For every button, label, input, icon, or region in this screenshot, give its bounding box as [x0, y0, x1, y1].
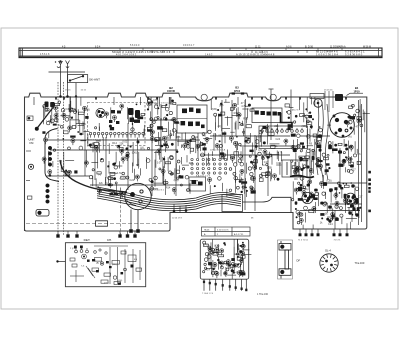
pad: [119, 192, 122, 195]
wire harness exit: [243, 197, 292, 212]
pad: [47, 121, 50, 124]
solder pads bottom right edge: [299, 229, 348, 236]
pad: [187, 189, 190, 192]
svg-text:TKa 160: TKa 160: [355, 261, 365, 265]
svg-text:0.5: 0.5: [258, 149, 262, 152]
wire: [132, 142, 134, 166]
wire: [127, 115, 129, 124]
resistor: [72, 126, 76, 129]
pad: [338, 182, 341, 185]
solder dot: [248, 137, 250, 139]
transistor: [237, 113, 241, 120]
transistor: [105, 112, 109, 119]
pad: [185, 175, 189, 179]
IF module T3 parts: [255, 111, 282, 116]
transistor Q6: [345, 193, 356, 204]
solder dot: [71, 117, 73, 119]
transistor Q5: [302, 192, 313, 203]
solder dot: [239, 122, 241, 124]
legs of large can: [130, 210, 140, 233]
capacitor: [250, 150, 254, 152]
pad: [61, 109, 64, 112]
svg-text:(C8C) 4 1 6 2 A: (C8C) 4 1 6 2 A: [210, 149, 226, 152]
solder dot: [112, 163, 115, 166]
switch SK-ANT box: [68, 75, 88, 96]
wire: [269, 152, 271, 159]
resistor: [190, 148, 193, 151]
pad: [180, 184, 182, 186]
wire: [97, 111, 99, 117]
transistor Q1: [96, 108, 105, 117]
pad: [79, 146, 83, 150]
wire: [108, 161, 110, 174]
solder dot: [329, 190, 331, 192]
pad: [153, 121, 156, 124]
capacitor: [316, 165, 320, 168]
pad: [219, 144, 222, 147]
wire: [301, 143, 303, 150]
pad: [350, 146, 354, 150]
wire: [169, 97, 171, 104]
antenna EXT-ANT terminals: [49, 61, 86, 97]
transistor: [71, 139, 75, 146]
wire: [91, 161, 98, 163]
wire: [131, 163, 133, 173]
solder dot: [157, 107, 159, 109]
wire: [189, 183, 191, 194]
svg-text:A 19 15 12 8 68 21 034964: A 19 15 12 8 68 21 034964 4 8: [236, 52, 275, 56]
wire: [236, 108, 238, 117]
svg-text:SK-ANT: SK-ANT: [89, 78, 100, 82]
wire: [255, 136, 257, 150]
wire: [115, 152, 117, 163]
wire: [341, 189, 343, 199]
svg-text:C24: C24: [129, 179, 134, 182]
transistor: [319, 164, 323, 171]
resistor: [357, 117, 361, 120]
wire: [236, 144, 238, 158]
pad: [126, 152, 129, 155]
svg-text:R14: R14: [186, 189, 191, 192]
solder dot: [126, 147, 129, 150]
capacitor: [74, 170, 77, 173]
pad: [239, 143, 242, 146]
svg-text:C17: C17: [205, 244, 210, 247]
wire: [138, 152, 140, 167]
transistor: [68, 126, 72, 132]
pad: [108, 176, 112, 180]
transistor: [157, 149, 161, 156]
wire: [246, 137, 248, 144]
wire: [165, 141, 167, 152]
svg-text:(CB): (CB): [212, 108, 217, 111]
wire: [353, 127, 355, 135]
transistor: [284, 139, 288, 146]
wire: [347, 206, 351, 208]
wire: [235, 121, 237, 136]
pad: [242, 186, 244, 188]
resistor: [234, 152, 239, 155]
transformer T4 outline: [282, 160, 307, 177]
wire: [136, 138, 138, 151]
pad: [245, 138, 248, 141]
wire: [177, 136, 179, 146]
transistor: [250, 187, 254, 194]
svg-text:(D6): (D6): [118, 280, 123, 282]
pad: [349, 120, 353, 124]
solder dot: [302, 167, 304, 169]
lead into detector board: [59, 260, 66, 262]
resistor: [109, 177, 113, 180]
wire: [364, 112, 366, 133]
wire: [314, 202, 316, 213]
svg-text:TA 26: TA 26: [204, 228, 210, 231]
capacitor row FM section: [109, 110, 121, 124]
solder dot: [345, 144, 348, 147]
pad: [150, 187, 154, 191]
svg-text:C17: C17: [120, 178, 125, 181]
transistor: [98, 189, 102, 196]
wire: [332, 209, 334, 220]
svg-text:0.5: 0.5: [157, 162, 161, 165]
wire: [303, 102, 305, 122]
capacitor: [251, 190, 256, 193]
pad: [65, 118, 69, 122]
pad: [233, 163, 237, 167]
pad: [305, 115, 308, 118]
wire: [150, 97, 152, 106]
svg-text:4 (A1) 6: 4 (A1) 6: [46, 119, 55, 122]
pad: [307, 135, 310, 138]
wire: [98, 123, 100, 131]
wire: [181, 157, 183, 164]
wire: [306, 129, 308, 144]
solder dot: [263, 141, 266, 144]
wire: [108, 179, 110, 183]
wire: [76, 123, 85, 125]
transistor: [299, 218, 303, 225]
svg-text:(C8): (C8): [65, 108, 70, 111]
svg-text:15 16: 15 16: [65, 90, 71, 92]
wire: [175, 163, 177, 177]
capacitor: [70, 136, 75, 138]
pad: [147, 147, 149, 149]
pad: [154, 117, 158, 121]
wire: [266, 124, 268, 145]
pad: [331, 213, 335, 217]
pad: [186, 145, 190, 149]
transistor: [357, 119, 361, 126]
pad: [172, 129, 176, 133]
pad: [89, 175, 92, 178]
pad: [250, 172, 253, 175]
pad: [61, 126, 64, 129]
pad: [122, 172, 125, 175]
dial drum DL-4: [320, 254, 338, 272]
pad: [208, 130, 211, 133]
transistor: [120, 104, 124, 111]
wire: [325, 192, 327, 199]
pad: [316, 163, 318, 165]
wire angular bottom left: [60, 160, 127, 192]
transistor: [295, 168, 299, 175]
pad: [166, 145, 169, 148]
capacitor: [110, 127, 114, 130]
transistor: [309, 192, 313, 199]
solder dot: [255, 155, 257, 157]
wire: [177, 140, 188, 142]
resistor: [259, 178, 263, 181]
wire vertical channel right: [316, 100, 361, 225]
svg-text:C24: C24: [81, 123, 86, 126]
IF transformer can large: [125, 183, 151, 209]
capacitor: [340, 187, 343, 189]
wire: [239, 174, 241, 183]
amplifier board components: [203, 239, 252, 279]
svg-text:10 16 17 8: 10 16 17 8: [172, 218, 183, 220]
pad: [249, 155, 251, 157]
wire: [49, 115, 51, 123]
solder dot: [113, 177, 116, 180]
solder dot: [151, 101, 153, 103]
wire: [311, 125, 313, 129]
pad: [126, 176, 129, 179]
resistor: [305, 156, 309, 159]
resistor: [190, 139, 196, 142]
svg-text:0.01: 0.01: [158, 118, 163, 121]
wire: [157, 132, 159, 145]
wire loop around pad column: [45, 129, 59, 182]
wire: [298, 99, 300, 110]
svg-text:A 0 6: A 0 6: [286, 46, 292, 49]
capacitor: [262, 126, 266, 129]
transistor: [186, 140, 190, 147]
wire: [354, 209, 356, 215]
wire: [314, 97, 316, 107]
solder dot: [130, 145, 132, 147]
svg-text:(CB): (CB): [302, 125, 307, 128]
wire: [317, 158, 319, 165]
wire: [242, 147, 244, 161]
capacitor: [314, 197, 318, 200]
capacitor: [334, 187, 337, 190]
wire: [195, 137, 197, 153]
wire: [277, 152, 279, 161]
resistor: [246, 125, 251, 128]
resistor: [268, 132, 274, 135]
transistor: [342, 159, 346, 166]
solder dot: [326, 218, 329, 221]
pad: [343, 152, 345, 154]
wire: [331, 213, 333, 221]
svg-text:6 5 4: 6 5 4: [95, 46, 101, 49]
wire: [119, 188, 121, 200]
capacitor pair top-left: [45, 102, 55, 108]
transistor: [316, 158, 320, 165]
wire: [279, 162, 281, 174]
wire antenna leads: [58, 82, 64, 236]
svg-text:C17: C17: [358, 195, 363, 198]
wire: [119, 161, 121, 168]
pad: [258, 152, 261, 155]
wire: [139, 168, 141, 175]
pad columns left side: [46, 146, 52, 203]
solder dot: [63, 138, 65, 140]
wire: [350, 157, 352, 164]
pad: [170, 155, 174, 159]
wire: [173, 119, 175, 136]
wire: [143, 129, 145, 137]
resistor: [299, 156, 305, 158]
wire: [302, 114, 312, 116]
solder dot: [295, 208, 297, 210]
transistor: [229, 136, 233, 143]
solder dot: [296, 216, 298, 218]
pad: [335, 205, 338, 208]
resistor: [119, 147, 123, 150]
transistor: [273, 174, 277, 181]
wire: [318, 192, 320, 206]
pad: [54, 118, 58, 122]
solder dot: [220, 103, 222, 105]
transistor: [233, 141, 237, 148]
resistor: [271, 145, 275, 148]
pad: [218, 177, 222, 181]
screw hole in top edge notch 2: [270, 94, 276, 100]
pad: [163, 181, 166, 184]
wire: [341, 217, 343, 224]
svg-text:4 5 6 1 8: 4 5 6 1 8: [40, 53, 50, 56]
capacitor: [317, 135, 322, 137]
transistor: [345, 198, 349, 205]
solder dot: [305, 108, 307, 110]
svg-text:11 11: 11 11: [255, 46, 261, 49]
svg-text:1 4 6 2: 1 4 6 2: [205, 53, 213, 56]
capacitor: [53, 124, 57, 126]
wire diagonal to antenna: [37, 106, 55, 129]
wire: [79, 120, 81, 135]
pad: [45, 108, 48, 111]
pad: [68, 147, 71, 150]
wire: [314, 139, 316, 156]
pad: [327, 154, 329, 156]
pads at switch feet: [59, 95, 77, 98]
wire: [182, 164, 189, 166]
resistor: [266, 172, 270, 175]
wire: [203, 138, 212, 140]
capacitor: [157, 126, 163, 129]
wire: [322, 175, 324, 182]
solder dot: [319, 126, 321, 128]
wire: [308, 181, 310, 191]
wire: [61, 171, 72, 173]
transistor: [253, 165, 257, 172]
wire: [131, 114, 133, 125]
wire: [339, 150, 341, 162]
wire: [322, 175, 324, 189]
wire: [95, 178, 97, 189]
wire right edge feeds: [300, 183, 367, 211]
solder dot: [217, 109, 219, 111]
wire: [348, 207, 350, 213]
wire: [241, 178, 243, 185]
solder dot: [288, 117, 290, 119]
pad: [114, 166, 118, 170]
FM tuner module dashed outline: [88, 103, 146, 146]
capacitor: [320, 213, 324, 216]
IF module T2 parts: [181, 108, 205, 129]
transistor: [161, 169, 165, 176]
pad: [147, 99, 151, 103]
pad: [237, 186, 240, 189]
transistor: [231, 156, 235, 163]
capacitor: [179, 175, 183, 178]
pad: [240, 162, 244, 166]
solder dot: [107, 165, 109, 167]
pad: [297, 134, 301, 138]
svg-text:CH.: CH.: [107, 238, 112, 242]
solder dot: [245, 187, 247, 189]
transistor: [183, 144, 187, 151]
wire: [181, 133, 183, 140]
wire: [237, 141, 239, 150]
svg-text:M 56 M: M 56 M: [363, 46, 371, 49]
wire: [295, 153, 297, 165]
pad: [234, 176, 238, 180]
transistor: [67, 170, 71, 177]
resistor: [141, 114, 145, 116]
resistor: [307, 122, 312, 124]
solder dot: [345, 156, 347, 158]
resistor: [163, 129, 167, 132]
wire: [138, 159, 140, 169]
pad: [146, 159, 150, 163]
solder dot: [171, 143, 174, 146]
pad: [53, 149, 55, 151]
wire: [218, 114, 220, 128]
solder dot: [343, 183, 345, 185]
svg-text:(A): (A): [218, 125, 222, 128]
transistor: [205, 137, 209, 144]
solder dot: [97, 186, 99, 188]
pad: [150, 118, 153, 121]
svg-text:1P10: 1P10: [234, 89, 241, 93]
transistor: [349, 145, 353, 152]
svg-text:8 A 2 6 1 4 2 8: 8 A 2 6 1 4 2 8: [196, 175, 211, 178]
pad: [356, 109, 360, 113]
pad: [349, 170, 353, 174]
transistor: [309, 169, 313, 176]
wire: [306, 145, 308, 148]
pad: [323, 203, 327, 207]
capacitor: [163, 143, 168, 146]
wire: [245, 117, 247, 123]
transistor: [84, 161, 88, 168]
capacitor: [241, 181, 247, 183]
wire: [56, 111, 58, 123]
capacitor: [220, 152, 224, 155]
solder dot: [165, 104, 167, 106]
transistor: [334, 193, 338, 200]
electrolytic can C-large: [330, 113, 355, 138]
detector sub-board outline: [65, 243, 145, 287]
fuse holder DF: [278, 240, 293, 279]
svg-text:1P10: 1P10: [353, 89, 360, 93]
wire: [230, 131, 234, 133]
wire: [260, 135, 262, 142]
wire: [296, 188, 307, 190]
resistor: [97, 172, 101, 174]
